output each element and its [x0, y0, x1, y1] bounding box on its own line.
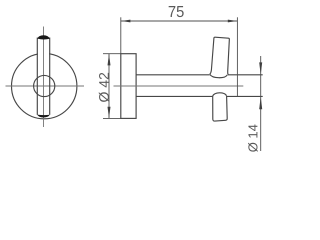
O14 top arrow: [259, 62, 262, 74]
plate circle O42: [12, 53, 77, 118]
upper prong end cap: [37, 35, 49, 39]
lower prong end cap: [37, 115, 49, 118]
front view horizontal centerline: [6, 85, 85, 87]
front view vertical centerline: [43, 27, 45, 128]
75 dimension text: [169, 6, 184, 17]
75 left arrow: [121, 20, 130, 23]
prong bar left edge: [36, 38, 38, 115]
O14 dimension line: [260, 56, 262, 151]
O42 dimension line: [108, 54, 110, 118]
upper prong base intersection curve: [210, 74, 227, 77]
side view centerline: [114, 85, 244, 87]
75 dimension left extension line: [120, 17, 122, 53]
O42 bottom arrow: [108, 107, 111, 119]
O42 dimension text: [99, 73, 109, 102]
hub circle O14: [34, 75, 55, 96]
lower prong outline: [213, 96, 228, 121]
prong bar right edge: [49, 38, 51, 115]
arm top edge right segment + O14 top extension: [228, 74, 263, 76]
O42 top arrow: [108, 54, 111, 66]
arm top edge left segment: [136, 74, 210, 76]
arm bottom edge left segment: [136, 95, 212, 97]
mask over circle top arc behind prong bar: [38, 52, 49, 57]
upper prong outline: [210, 37, 230, 75]
O14 dimension text: [248, 125, 258, 152]
O14 bottom arrow: [259, 97, 262, 110]
wall plate (side view): [121, 54, 136, 119]
arm end face + 75 right extension line: [236, 17, 238, 96]
arm bottom edge right segment + O14 bottom extension: [227, 95, 263, 97]
lower prong base intersection curve: [213, 93, 227, 96]
75 right arrow: [228, 20, 238, 23]
75 dimension line: [121, 20, 238, 22]
O42 dimension bottom extension line: [103, 117, 121, 119]
O42 dimension top extension line: [103, 53, 121, 55]
